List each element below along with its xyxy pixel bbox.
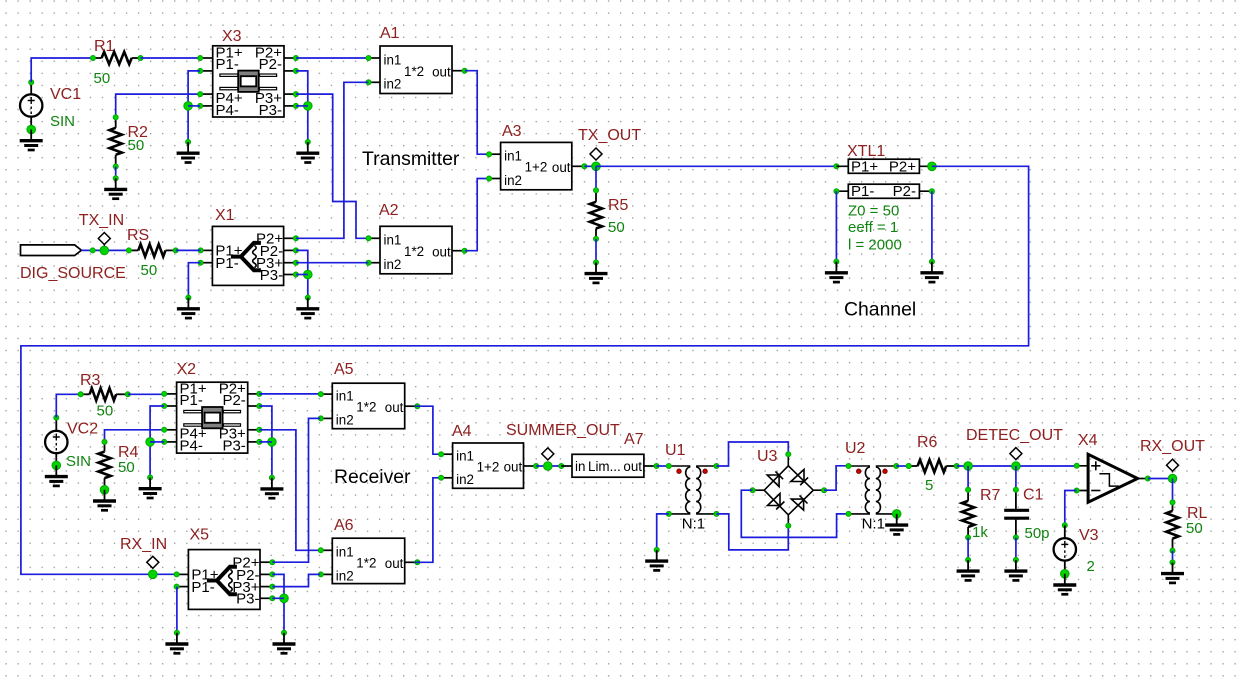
svg-text:V3: V3 [1079,527,1099,544]
ground X5 right [283,633,285,644]
wire X5 P1- to ground [176,587,178,633]
svg-text:1*2: 1*2 [404,64,424,79]
wire X1 P2- P3- to ground [296,250,308,297]
2-way splitter X5 [174,550,275,610]
4-port hybrid X2 [162,381,262,455]
svg-text:VC1: VC1 [50,86,81,103]
wire X2 P4- stub [150,441,164,443]
svg-text:in1: in1 [456,449,474,464]
wire X1 P3- stub [296,274,308,276]
resistor R3 [78,388,130,400]
wire R2 to ground [115,167,117,179]
wire X1 P3+ to A2 in2 [296,262,369,264]
diode bridge U3 [750,452,827,529]
svg-text:R6: R6 [917,434,938,451]
node RX_IN [147,556,159,568]
svg-text:l = 2000: l = 2000 [848,237,902,254]
svg-text:out: out [432,64,451,79]
node TX_IN [98,233,110,251]
ground U2 [896,514,898,525]
svg-text:in1: in1 [384,52,402,67]
ground U1 [656,550,658,561]
wire X4 minus to V3 [1065,491,1077,526]
svg-text:out: out [623,459,642,474]
svg-text:50: 50 [128,137,145,154]
svg-text:A6: A6 [334,517,354,534]
wire R7 to ground [967,538,969,560]
svg-text:A7: A7 [624,431,644,448]
wire A6 out to A4 in2 [415,478,441,563]
svg-text:P3-: P3- [259,102,282,119]
svg-text:X5: X5 [190,527,210,544]
svg-text:DIG_SOURCE: DIG_SOURCE [20,265,126,282]
wire X2 P3+ to A6 in1 [259,430,320,551]
svg-text:2: 2 [1087,558,1095,575]
resistor R6 [906,460,959,472]
svg-text:SUMMER_OUT: SUMMER_OUT [506,422,620,439]
svg-text:in1: in1 [336,545,354,560]
wire VC1 to R1 [31,58,93,82]
ground XTL1 left [835,262,837,273]
multiplier A6 [318,538,420,584]
svg-text:X1: X1 [215,207,235,224]
ground X1 right [307,298,309,309]
wire R6 to X4 [957,465,1077,467]
svg-text:Receiver: Receiver [334,466,411,488]
svg-text:Lim...: Lim... [588,459,621,474]
svg-text:P1+: P1+ [851,158,878,175]
node DETEC_OUT [1010,448,1022,461]
svg-text:out: out [432,244,451,259]
svg-text:R7: R7 [980,487,1001,504]
wire X5 P3+ to A6 in2 [272,574,320,586]
svg-text:in1: in1 [384,233,402,248]
wire C1 to ground [1015,538,1017,560]
svg-text:P3-: P3- [260,267,283,284]
svg-text:1+2: 1+2 [525,160,548,175]
voltage source VC2 [45,431,67,453]
svg-text:in2: in2 [384,257,402,272]
wire RS to X1 P1+ [176,249,201,251]
voltage source VC1 [20,94,42,116]
wire DIG_SOURCE to RS [81,249,128,251]
wire X1 P1- to ground [188,263,200,298]
ground C1 [1015,560,1017,571]
wire R1 to X3 P1+ [141,57,201,59]
svg-text:eeff = 1: eeff = 1 [848,219,898,236]
ground XTL1 right [931,262,933,273]
ground X1 left [187,298,189,309]
wire X3 P3- stub [296,105,308,107]
wire TX_OUT to XTL1 P1+ [596,165,836,167]
svg-text:P4-: P4- [180,438,203,455]
svg-text:out: out [385,556,404,571]
svg-text:A5: A5 [334,361,354,378]
svg-text:in1: in1 [336,388,354,403]
svg-text:X4: X4 [1078,432,1098,449]
ground for R2 [115,178,117,189]
transformer U2 [849,466,897,532]
svg-text:50p: 50p [1025,525,1050,542]
svg-text:50: 50 [94,70,111,87]
multiplier A5 [318,383,420,429]
summer A4 [439,443,539,488]
ground R5 [595,262,597,273]
svg-text:R5: R5 [608,197,629,214]
svg-text:TX_OUT: TX_OUT [578,127,641,144]
svg-text:1k: 1k [972,524,988,541]
svg-text:SIN: SIN [66,453,91,470]
svg-text:P4-: P4- [216,102,239,119]
wire U1 primary bottom to ground [657,514,669,550]
wire X3 P1- P4- to ground [188,71,200,142]
svg-text:C1: C1 [1023,487,1044,504]
svg-text:out: out [385,400,404,415]
wire X3 P2- P3- to ground [296,71,308,142]
ground V3 [1064,574,1066,585]
wire A5 out to A4 in1 [415,406,441,454]
wire R4 to X2 P4+ [105,430,165,442]
svg-text:RX_OUT: RX_OUT [1140,438,1205,455]
svg-text:50: 50 [1186,520,1203,537]
wire U1 secondary top to bridge [716,442,788,466]
wire X2 P2- P3- to ground [259,406,272,478]
wire RL to ground [1172,551,1174,563]
resistor RL [1166,500,1178,553]
node RX_OUT [1167,459,1179,472]
svg-text:50: 50 [118,459,135,476]
node TX_OUT [590,148,602,161]
svg-text:RS: RS [127,227,149,244]
multiplier A1 [366,46,467,94]
svg-text:in: in [575,459,585,474]
2-way splitter X1 [198,226,298,285]
wire VC2 to R3 [56,394,80,417]
wire R3 to X2 P1+ [128,393,164,395]
svg-text:XTL1: XTL1 [847,143,885,160]
svg-text:in2: in2 [456,472,474,487]
wire X2 P2+ to A5 in1 [259,393,320,395]
svg-text:Channel: Channel [844,299,916,321]
transmission line XTL1 [834,158,936,200]
ground X3 right [307,142,309,153]
wire X5 P2+ to A5 in2 [272,418,320,562]
svg-text:DETEC_OUT: DETEC_OUT [966,427,1063,444]
limiter A7 [561,454,659,477]
svg-text:TX_IN: TX_IN [79,212,124,229]
ground R7 [967,560,969,571]
svg-text:P2-: P2- [222,392,245,409]
wire XTL1 P2- to ground [931,191,933,261]
svg-text:1*2: 1*2 [356,400,376,415]
voltage source V3 [1054,538,1076,560]
wire X5 P3- stub [272,597,284,599]
svg-text:X3: X3 [222,28,242,45]
ground X2 left [149,478,151,489]
svg-text:1*2: 1*2 [404,244,424,259]
svg-text:P2+: P2+ [889,158,916,175]
ground X5 left [176,633,178,644]
wire A7 out to U1 [657,465,669,467]
svg-text:A2: A2 [379,202,399,219]
wire X2 P3- stub [259,441,272,443]
wire node to C1 [1015,466,1017,490]
svg-text:out: out [504,460,523,475]
ground VC2 [55,465,57,476]
svg-text:Z0 = 50: Z0 = 50 [848,203,899,220]
svg-text:50: 50 [97,403,114,420]
summer A3 [487,142,587,189]
wire channel loop [21,166,1029,574]
wire RX_OUT to RL [1172,479,1174,503]
svg-text:in2: in2 [384,77,402,92]
wire R2 to X3 P4+ [116,94,201,117]
svg-text:P1-: P1- [216,56,239,73]
wire X3 P4- stub [188,105,200,107]
svg-text:50: 50 [141,262,158,279]
svg-text:in2: in2 [336,413,354,428]
node SUMMER_OUT [542,448,554,461]
digital source DIG_SOURCE [21,245,82,256]
ground X3 left [187,142,189,153]
svg-text:P2-: P2- [893,183,916,200]
svg-text:Transmitter: Transmitter [362,148,460,170]
wire R5 to ground [595,239,597,263]
capacitor C1 [1004,487,1029,540]
resistor R1 [91,52,144,64]
svg-text:A4: A4 [452,423,472,440]
ground RL [1172,562,1174,573]
wire A2 out to A3 in2 [465,179,490,251]
wire X5 P2- P3- to ground [272,574,284,632]
resistor R7 [962,487,974,540]
svg-text:P1-: P1- [851,183,874,200]
svg-text:A1: A1 [380,25,400,42]
resistor R5 [590,188,602,242]
wire U1 secondary bottom to bridge [716,514,788,550]
svg-text:P2-: P2- [259,56,282,73]
wire XTL1 P1- to ground [835,191,837,261]
svg-text:P1-: P1- [180,392,203,409]
resistor RS [126,244,178,256]
transformer U1 [669,466,717,532]
comparator X4 [1074,454,1150,502]
svg-text:P3-: P3- [236,591,259,608]
svg-text:5: 5 [925,477,933,494]
svg-text:P3-: P3- [222,438,245,455]
wire A4 out to A7 [536,465,561,467]
svg-text:50: 50 [608,219,625,236]
multiplier A2 [366,226,467,273]
svg-text:U2: U2 [845,440,866,457]
wire U2 to R6 [896,465,908,467]
wire X1 P2+ to A1 in2 [296,82,369,238]
svg-text:A3: A3 [502,123,522,140]
svg-text:U3: U3 [757,448,778,465]
wire TX_OUT down to R5 [595,166,597,190]
svg-text:RX_IN: RX_IN [120,536,167,553]
svg-text:in2: in2 [336,569,354,584]
svg-text:X2: X2 [177,361,197,378]
svg-text:R1: R1 [94,38,115,55]
wire A3 out to TX_OUT [584,165,596,167]
svg-text:U1: U1 [665,442,686,459]
svg-text:VC2: VC2 [67,421,98,438]
wire node to R7 [967,466,969,490]
wire A1 out to A3 in1 [465,71,490,155]
svg-text:1+2: 1+2 [477,459,500,474]
wire X3 P3+ to A2 in1 [296,94,369,238]
ground R4 [104,490,106,501]
svg-text:1*2: 1*2 [356,556,376,571]
4-port hybrid X3 [198,45,299,119]
svg-text:in1: in1 [504,149,522,164]
resistor R4 [98,439,110,494]
wire bridge left to U2 bottom [741,490,848,537]
svg-text:SIN: SIN [50,113,75,130]
svg-text:N:1: N:1 [862,515,885,532]
wire X3 P2+ to A1 in1 [296,57,369,59]
wire X2 P1- P4- to ground [150,406,164,478]
wire X4 out to RX_OUT [1148,478,1173,480]
svg-text:in2: in2 [504,173,522,188]
svg-text:R3: R3 [80,372,101,389]
resistor R2 [110,115,122,169]
ground for VC1 [30,130,32,141]
wire bridge right to U2 top [824,466,848,490]
svg-text:N:1: N:1 [682,515,705,532]
ground X2 right [271,478,273,489]
svg-text:out: out [552,160,571,175]
